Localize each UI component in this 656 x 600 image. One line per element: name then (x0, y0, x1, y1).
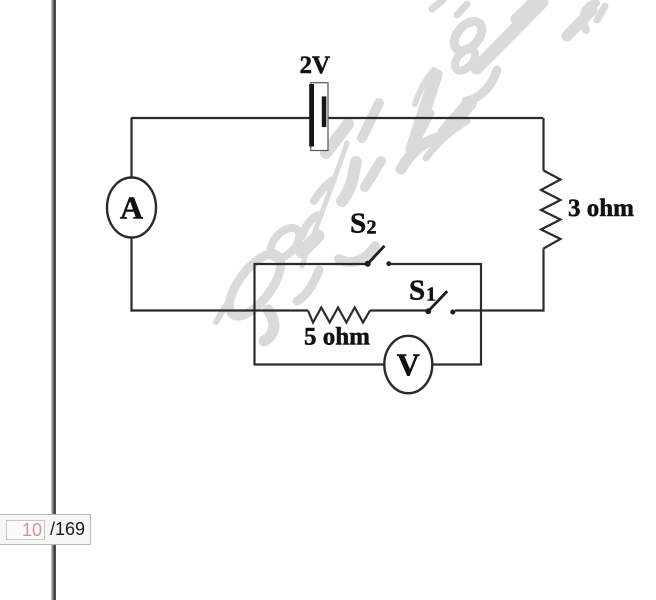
wire left upper (top wire to ammeter) (130, 118, 132, 178)
inner box bottom edge (right of voltmeter) (433, 363, 483, 365)
page divider line (51, 0, 56, 600)
wire left lower (ammeter to middle wire) (130, 237, 132, 312)
wire middle right (S1 to right wire) (455, 309, 544, 311)
inner box right edge (480, 263, 482, 366)
pagination widget (0, 514, 91, 545)
svg-text:2: 2 (367, 217, 377, 239)
ammeter A1 (107, 178, 156, 238)
watermark (216, 0, 605, 341)
voltmeter V1 (384, 336, 432, 393)
switch S1 pivot node (425, 308, 431, 314)
inner box left edge (253, 264, 255, 365)
wire middle (5 ohm to switch S1) (370, 309, 426, 311)
inner box top edge (left of S2) (254, 263, 367, 265)
svg-text:1: 1 (426, 283, 436, 305)
switch S1 contact node (450, 310, 455, 315)
battery B1 body (311, 83, 328, 151)
wire top (right of battery) (327, 117, 543, 119)
svg-text:2V: 2V (300, 52, 331, 79)
wire top (left of battery) (131, 117, 310, 119)
svg-text:V: V (397, 347, 420, 383)
switch S2 pivot node (365, 261, 371, 267)
wire middle left (to 5 ohm resistor) (131, 309, 309, 311)
svg-text:S: S (350, 208, 366, 240)
inner box top edge (right of S2) (390, 263, 482, 265)
resistor R1 3 ohm (vertical zigzag) (541, 171, 561, 249)
svg-text:A: A (120, 190, 143, 226)
svg-text:3 ohm: 3 ohm (568, 195, 634, 222)
switch S2 blade (368, 246, 385, 264)
svg-text:S: S (409, 275, 425, 307)
wire right lower (3 ohm to middle wire) (542, 249, 544, 312)
battery B1 long plate (309, 84, 314, 147)
inner box bottom edge (left of voltmeter) (254, 363, 385, 365)
resistor R2 5 ohm (horizontal zigzag) (308, 308, 370, 323)
switch S1 blade (428, 291, 447, 311)
wire right upper (top wire to 3 ohm) (542, 118, 544, 171)
battery B1 short plate (322, 96, 327, 127)
svg-text:5 ohm: 5 ohm (304, 324, 370, 351)
switch S2 contact node (386, 261, 391, 266)
